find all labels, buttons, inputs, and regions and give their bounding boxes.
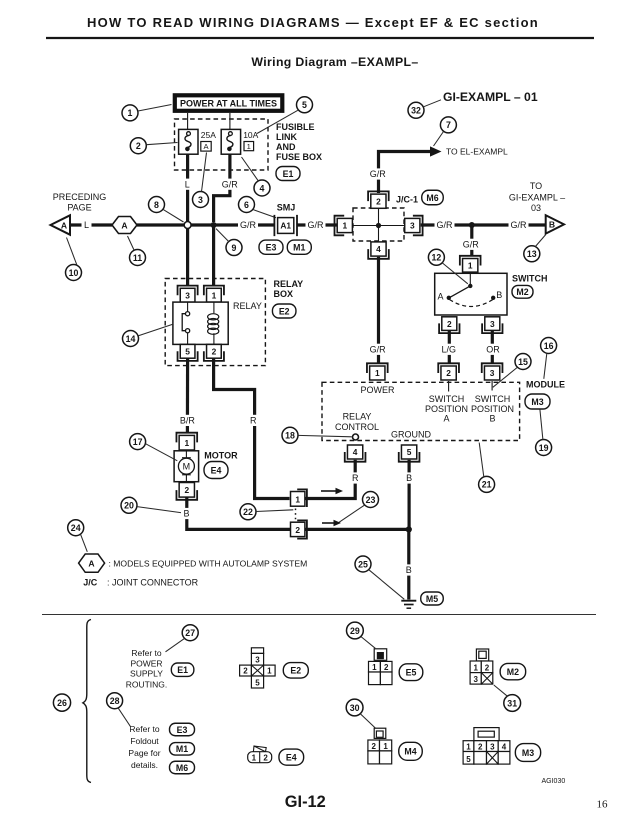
module pin 2 stub: [448, 381, 450, 392]
svg-text:1: 1: [184, 438, 189, 448]
off-page arrow B (to GI-EXAMPL-03): [546, 215, 564, 233]
wire label L (L on main line): [82, 219, 92, 230]
label title GI-EXAMPL - 01: [443, 90, 538, 104]
svg-text:17: 17: [133, 437, 143, 447]
svg-text:5: 5: [255, 678, 260, 687]
label label TO: [530, 181, 542, 191]
svg-text:1: 1: [267, 667, 272, 676]
label legend refer2 line3: [128, 748, 160, 758]
balloon 12: [428, 249, 444, 265]
svg-text:ROUTING.: ROUTING.: [126, 680, 168, 690]
svg-text:3: 3: [490, 319, 495, 329]
leader line balloon 10: [67, 238, 77, 265]
legend hexagon option marker A: [79, 554, 105, 572]
label label AND: [276, 142, 296, 152]
wire main line segment 5: [421, 223, 546, 226]
svg-text:TO: TO: [530, 181, 542, 191]
svg-text:HOW TO READ WIRING DIAGRAMS —: HOW TO READ WIRING DIAGRAMS — Except EF …: [87, 15, 539, 30]
wire R wire relay pin2 to connector 1: [214, 359, 290, 499]
svg-text:E1: E1: [283, 169, 294, 179]
label label SWITCH: [512, 273, 548, 283]
balloon 3: [193, 192, 209, 208]
junction dot node G/R: [211, 222, 217, 228]
svg-text:M1: M1: [176, 744, 188, 754]
label legend refer1 line3: [130, 669, 163, 679]
svg-text:5: 5: [407, 447, 412, 457]
leader line balloon 4: [242, 157, 259, 181]
svg-text:3: 3: [490, 368, 495, 378]
svg-text:2: 2: [212, 347, 217, 357]
label diagram subtitle: [251, 55, 418, 69]
leader line balloon 32: [424, 100, 442, 107]
leader line balloon 14: [138, 324, 173, 336]
label value label 10A: [243, 130, 258, 140]
balloon 18: [282, 427, 298, 443]
relay pin 1: [204, 286, 224, 302]
label label RELAY CONTROL 1: [343, 411, 372, 421]
svg-text:22: 22: [243, 507, 253, 517]
svg-text:4: 4: [376, 244, 381, 254]
relay pin 2: [204, 344, 224, 361]
svg-text:20: 20: [124, 501, 134, 511]
connector face E5: [369, 649, 393, 685]
connector code oval E5 legend: [399, 664, 423, 681]
junction dot node to switch: [469, 222, 475, 228]
svg-text:5: 5: [185, 347, 190, 357]
balloon 26: [53, 694, 70, 711]
svg-text:32: 32: [411, 106, 421, 116]
svg-text:E4: E4: [286, 752, 297, 762]
wire label L/G (L/G): [439, 344, 459, 355]
switch pin 1: [460, 256, 481, 272]
svg-text:18: 18: [285, 431, 295, 441]
svg-text:M2: M2: [507, 667, 519, 677]
label label SMJ: [277, 203, 296, 213]
svg-text:2: 2: [447, 319, 452, 329]
svg-text:E3: E3: [177, 725, 188, 735]
wire label B (B motor): [181, 508, 192, 519]
svg-text:23: 23: [366, 495, 376, 505]
J/C-1 pin 1: [335, 216, 353, 236]
svg-text:9: 9: [232, 243, 237, 253]
svg-text:1: 1: [342, 221, 347, 231]
label label J/C-1: [396, 195, 418, 205]
legend brace: [83, 620, 91, 783]
svg-text:2: 2: [243, 667, 248, 676]
connector code oval E4 legend: [279, 749, 304, 765]
svg-text:1: 1: [295, 495, 300, 505]
svg-text:19: 19: [539, 443, 549, 453]
svg-text:: JOINT CONNECTOR: : JOINT CONNECTOR: [107, 578, 199, 588]
svg-text:G/R: G/R: [370, 169, 387, 179]
svg-text:M1: M1: [293, 243, 305, 253]
label label RELAY BOX line1: [274, 279, 304, 289]
wire label B (B pin5): [404, 472, 415, 483]
svg-text:M5: M5: [426, 594, 438, 604]
wire OR wire switch to module: [491, 331, 494, 363]
svg-text:J/C: J/C: [83, 578, 98, 588]
wire label B/R (B/R): [177, 415, 197, 426]
svg-text:RELAY: RELAY: [343, 411, 372, 421]
svg-text:3: 3: [198, 195, 203, 205]
svg-text:2: 2: [184, 485, 189, 495]
svg-text:3: 3: [473, 675, 478, 684]
balloon 6: [239, 197, 255, 213]
svg-text:2: 2: [136, 141, 141, 151]
ground symbol M5: [401, 601, 416, 609]
switch contact mechanism: [447, 273, 496, 307]
wire G/R wire to switch: [470, 225, 473, 256]
balloon 29: [347, 622, 364, 639]
connector face E2 (cross shape): [240, 648, 276, 688]
fuse 10A: [221, 129, 240, 154]
svg-text:Foldout: Foldout: [130, 736, 159, 746]
connector face M4: [368, 728, 392, 764]
module pin 1 POWER: [367, 363, 388, 380]
label label TO EL-EXAMPL: [446, 147, 508, 157]
svg-text:G/R: G/R: [307, 220, 324, 230]
svg-text:GI-EXAMPL –: GI-EXAMPL –: [509, 193, 565, 203]
label label POWER: [360, 385, 395, 395]
wire L wire fuse to node: [186, 154, 189, 222]
svg-text:G/R: G/R: [370, 345, 387, 355]
svg-text:POWER: POWER: [130, 658, 162, 668]
svg-text:B: B: [549, 220, 555, 230]
label page code GI-12: [285, 793, 326, 811]
svg-text:J/C-1: J/C-1: [396, 195, 418, 205]
balloon 2: [130, 138, 146, 154]
leader line balloon 23: [337, 505, 365, 524]
balloon 13: [524, 246, 540, 262]
wire G/R branch wire to arrow: [379, 152, 432, 194]
connector code oval E2 legend: [283, 663, 308, 679]
svg-text:1: 1: [466, 743, 471, 752]
leader line balloon 5: [257, 110, 298, 133]
balloon 5: [297, 97, 313, 113]
svg-text:10A: 10A: [243, 130, 258, 140]
svg-text:: MODELS EQUIPPED WITH AUTOLAM: : MODELS EQUIPPED WITH AUTOLAMP SYSTEM: [109, 559, 308, 569]
svg-text:10: 10: [69, 268, 79, 278]
label label SWITCH POS B3: [489, 414, 495, 424]
wire wire to relay pin 1: [212, 225, 215, 285]
label label LINK: [276, 132, 297, 142]
inline connector 2: [291, 520, 307, 538]
svg-text:SMJ: SMJ: [277, 203, 296, 213]
label label RELAY BOX line2: [274, 289, 294, 299]
inline connector 1: [291, 489, 307, 507]
wire L wire to relay pin 3: [186, 228, 189, 285]
leader line balloon 13: [535, 235, 546, 247]
leader line balloon 29: [361, 637, 375, 649]
balloon 15: [515, 354, 531, 370]
connector code oval M3: [525, 394, 550, 409]
leader line balloon 17: [146, 444, 178, 461]
balloon 7: [440, 117, 456, 133]
connector code oval M5: [421, 592, 444, 605]
svg-text:15: 15: [518, 357, 528, 367]
svg-text:A1: A1: [280, 221, 291, 231]
svg-text:M6: M6: [426, 193, 438, 203]
svg-text:E1: E1: [177, 665, 188, 675]
svg-text:MODULE: MODULE: [526, 379, 565, 389]
balloon 16: [541, 338, 557, 354]
svg-text:26: 26: [57, 698, 67, 708]
leader line balloon 18: [298, 435, 352, 436]
leader line balloon 30: [360, 714, 375, 728]
wire label R (R to pin4): [350, 472, 361, 483]
balloon 17: [130, 434, 146, 450]
svg-text:Refer to: Refer to: [129, 724, 160, 734]
svg-text:1: 1: [473, 663, 478, 672]
label legend refer2 line1: [129, 724, 160, 734]
connector code oval E3: [259, 240, 283, 254]
svg-text:CONTROL: CONTROL: [335, 422, 379, 432]
J/C-1 internal bus cross: [353, 208, 404, 241]
svg-text:L/G: L/G: [441, 345, 456, 355]
svg-text:E2: E2: [279, 306, 290, 316]
J/C-1 pin 2: [368, 191, 389, 208]
svg-text:E3: E3: [266, 243, 277, 253]
balloon 32: [408, 102, 424, 118]
svg-text:G/R: G/R: [463, 240, 480, 250]
connector face M2: [470, 649, 493, 684]
svg-text:L: L: [185, 179, 190, 189]
flow arrow near connector 2: [322, 520, 341, 526]
leader line balloon 6: [253, 210, 276, 218]
balloon 28: [107, 693, 123, 709]
svg-text:25A: 25A: [201, 130, 216, 140]
wire label R (R): [248, 415, 259, 426]
svg-text:OR: OR: [486, 345, 500, 355]
svg-text:13: 13: [527, 249, 537, 259]
label legend joint connector: [107, 578, 199, 588]
wire label G/R (G/R main line 2): [306, 219, 326, 230]
fusible link 25A: [179, 129, 198, 154]
svg-text:4: 4: [260, 183, 265, 193]
svg-text:B: B: [183, 509, 189, 519]
svg-text:SWITCH: SWITCH: [429, 394, 465, 404]
svg-text:RELAY: RELAY: [274, 279, 304, 289]
leader line balloon 2: [146, 143, 177, 145]
svg-text:M3: M3: [522, 748, 534, 758]
svg-text:B: B: [406, 565, 412, 575]
connector code oval E4: [204, 462, 228, 479]
switch pin 2: [439, 317, 459, 333]
svg-text:2: 2: [376, 196, 381, 206]
relay pin 5: [178, 344, 198, 361]
svg-text:R: R: [250, 416, 257, 426]
svg-text:AGI030: AGI030: [542, 778, 566, 785]
J/C-1 pin 3: [405, 216, 423, 236]
wire G/R wire J/C to module: [377, 257, 380, 363]
svg-text:AND: AND: [276, 142, 296, 152]
wire label G/R (G/R under fuse): [220, 179, 240, 190]
leader line balloon 28: [118, 708, 130, 726]
motor body M: [174, 451, 199, 482]
svg-text:2: 2: [446, 368, 451, 378]
open-circle junction (node): [184, 222, 191, 229]
label label SWITCH POS A3: [443, 414, 449, 424]
label legend autolamp: [109, 559, 308, 569]
label label FUSIBLE: [276, 122, 315, 132]
module pin 3: [482, 363, 503, 380]
svg-text:5: 5: [466, 755, 471, 764]
svg-text:E4: E4: [211, 465, 222, 475]
svg-text:FUSIBLE: FUSIBLE: [276, 122, 315, 132]
balloon 22: [240, 504, 256, 520]
svg-text:1: 1: [128, 108, 133, 118]
leader line balloon 20: [137, 507, 183, 513]
svg-text:M2: M2: [516, 287, 528, 297]
svg-text:A: A: [443, 414, 449, 424]
module dashed boundary: [322, 382, 520, 440]
wire main line segment 3: [191, 223, 275, 226]
svg-text:3: 3: [185, 290, 190, 300]
wire label G/R (G/R to switch): [461, 239, 481, 250]
svg-text:1: 1: [247, 142, 251, 151]
leader line balloon 7: [434, 132, 444, 147]
svg-text:G/R: G/R: [436, 220, 453, 230]
svg-text:TO EL-EXAMPL: TO EL-EXAMPL: [446, 147, 508, 157]
wire G/R wire fuse to node: [214, 154, 230, 222]
svg-text:Wiring Diagram –EXAMPL–: Wiring Diagram –EXAMPL–: [251, 55, 418, 69]
label label 03: [531, 203, 541, 213]
leader line balloon 8: [163, 209, 184, 222]
connector code oval M2 legend: [500, 663, 526, 679]
svg-text:SUPPLY: SUPPLY: [130, 669, 163, 679]
balloon 14: [123, 331, 139, 347]
power source box POWER AT ALL TIMES: [175, 95, 282, 111]
connector code oval E1: [276, 167, 300, 181]
svg-text:E5: E5: [406, 668, 417, 678]
svg-text:PRECEDING: PRECEDING: [53, 192, 107, 202]
module pin 3 stub: [491, 381, 493, 391]
relay contact symbol: [182, 302, 190, 344]
connector code oval M1: [287, 240, 311, 254]
flow arrow near connector 1: [321, 488, 343, 494]
label value label 25A: [201, 130, 216, 140]
balloon 20: [121, 497, 137, 513]
relay box dashed boundary E2: [165, 279, 265, 366]
balloon 27: [182, 625, 198, 641]
wire R wire connector 1 to module pin 4: [305, 460, 355, 499]
svg-text:4: 4: [502, 743, 507, 752]
svg-text:27: 27: [185, 628, 195, 638]
SMJ connector A1: [274, 215, 297, 236]
svg-text:1: 1: [383, 742, 388, 751]
wire from power box to fusible link: [187, 113, 189, 129]
svg-text:30: 30: [350, 703, 360, 713]
connector face E4: [248, 746, 272, 763]
svg-text:21: 21: [482, 480, 492, 490]
wire label G/R (G/R to module): [368, 344, 388, 355]
leader line balloon 15: [493, 367, 518, 387]
relay coil symbol: [208, 302, 219, 344]
relay pin 3: [178, 286, 198, 302]
label label MODULE: [526, 379, 565, 389]
leader line balloon 1: [138, 105, 172, 112]
svg-text:G/R: G/R: [240, 220, 257, 230]
svg-text:Refer to: Refer to: [131, 648, 162, 658]
label label RELAY CONTROL 2: [335, 422, 379, 432]
svg-text:2: 2: [485, 663, 490, 672]
svg-text:GI-12: GI-12: [285, 793, 326, 811]
leader line balloon 11: [128, 236, 135, 250]
svg-text:4: 4: [353, 447, 358, 457]
wire main line segment 1: [70, 223, 112, 226]
svg-text:POWER: POWER: [360, 385, 395, 395]
svg-text:1: 1: [375, 368, 380, 378]
svg-text:A: A: [88, 559, 94, 569]
svg-text:16: 16: [597, 798, 609, 810]
connector code oval E3 legend: [170, 723, 195, 736]
connector code oval M3 legend: [515, 744, 540, 762]
svg-text:16: 16: [544, 341, 554, 351]
svg-text:B: B: [489, 414, 495, 424]
wire label G/R (G/R vertical branch): [368, 168, 388, 179]
balloon 24: [68, 520, 84, 536]
svg-text:POSITION: POSITION: [471, 404, 514, 414]
svg-text:M6: M6: [176, 763, 188, 773]
svg-text:29: 29: [350, 626, 360, 636]
svg-text:14: 14: [126, 334, 136, 344]
svg-text:3: 3: [490, 743, 495, 752]
svg-text:G/R: G/R: [510, 220, 527, 230]
svg-text:M: M: [183, 462, 191, 472]
wire label G/R (G/R main line 4): [509, 219, 529, 230]
svg-text:BOX: BOX: [274, 289, 294, 299]
wire B wire to ground: [407, 529, 410, 599]
svg-text:B/R: B/R: [180, 416, 196, 426]
svg-text:03: 03: [531, 203, 541, 213]
label page title: [87, 15, 539, 30]
label label MOTOR: [204, 451, 238, 461]
motor pin 1: [176, 433, 197, 450]
svg-text:SWITCH: SWITCH: [512, 273, 548, 283]
switch body: [435, 273, 507, 315]
wire L/G wire switch to module: [448, 331, 451, 363]
svg-text:MOTOR: MOTOR: [204, 451, 238, 461]
leader line balloon 19: [540, 409, 543, 439]
connector face M3: [463, 728, 510, 765]
svg-text:M4: M4: [404, 747, 416, 757]
svg-text:A: A: [61, 220, 67, 230]
label legend refer1 line2: [130, 658, 162, 668]
svg-text:31: 31: [507, 698, 517, 708]
svg-text:M3: M3: [531, 397, 543, 407]
label label FUSE BOX: [276, 152, 322, 162]
dotted mating line between connectors 1 and 2: [295, 509, 297, 521]
balloon 8: [149, 197, 165, 213]
svg-text:PAGE: PAGE: [67, 202, 91, 212]
wire B/R wire relay to motor: [186, 359, 189, 433]
connector code oval M1 legend: [170, 743, 195, 756]
label label SWITCH POS A1: [429, 394, 465, 404]
joint connector J/C-1 dashed box: [353, 208, 404, 241]
label label RELAY: [233, 301, 262, 311]
leader line balloon 31: [494, 685, 508, 696]
svg-text:5: 5: [302, 100, 307, 110]
J/C-1 pin 4: [368, 242, 389, 259]
balloon 30: [346, 699, 363, 716]
wire label G/R (G/R main line 3): [435, 219, 455, 230]
balloon 19: [536, 440, 552, 456]
flow arrowhead TO EL-EXAMPL: [430, 146, 442, 156]
svg-text:2: 2: [263, 754, 268, 763]
svg-text:2: 2: [371, 742, 376, 751]
module pin 4: [345, 445, 366, 462]
balloon 1: [122, 105, 138, 121]
